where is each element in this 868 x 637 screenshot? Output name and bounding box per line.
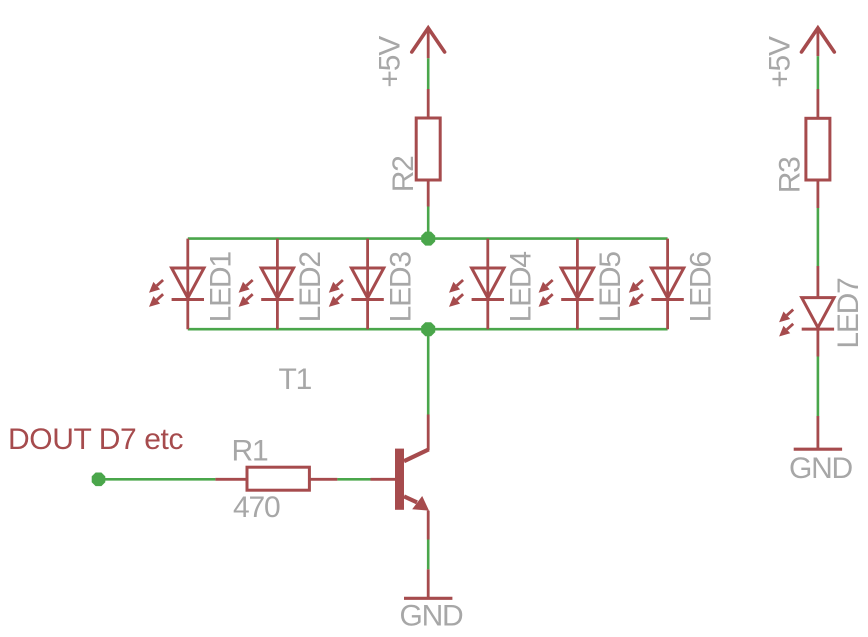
- wire top rail of LED bank (green): [188, 237, 668, 240]
- svg-text:R3: R3: [774, 157, 807, 193]
- svg-text:R1: R1: [232, 434, 268, 467]
- LED LED2 triangle: [261, 268, 293, 298]
- LED LED6 cathode bar: [651, 298, 683, 301]
- LED LED4 emission arrows: [449, 280, 463, 307]
- transistor T1 base pin: [371, 478, 396, 481]
- resistor R3 bottom pin: [817, 180, 820, 208]
- LED LED6 emission arrows: [629, 280, 643, 307]
- LED LED3 cathode bar: [351, 298, 383, 301]
- transistor T1 emitter diagonal with arrow: [404, 496, 429, 511]
- LED LED5 pin wire: [576, 239, 579, 330]
- wire bottom rail of LED bank (green): [188, 328, 668, 331]
- svg-text:+5V: +5V: [373, 36, 406, 88]
- svg-text:LED1: LED1: [205, 252, 238, 323]
- LED LED3 emission arrows: [329, 280, 343, 307]
- power +5V supply symbol (right): [802, 28, 835, 52]
- wire net +5V to R3 (green): [817, 56, 820, 89]
- diode LED7 triangle: [802, 298, 834, 328]
- diode LED7 anode pin: [817, 266, 820, 298]
- transistor T1 emitter pin: [427, 511, 430, 540]
- svg-text:DOUT D7 etc: DOUT D7 etc: [8, 423, 183, 456]
- LED LED2 emission arrows: [239, 280, 253, 307]
- LED LED4 pin wire: [486, 239, 489, 330]
- svg-text:470: 470: [233, 491, 280, 524]
- svg-text:T1: T1: [279, 363, 312, 396]
- wire +5V pin (center, red segment): [427, 28, 430, 58]
- svg-text:LED5: LED5: [594, 252, 627, 323]
- LED LED2 cathode bar: [261, 298, 293, 301]
- svg-text:+5V: +5V: [763, 36, 796, 88]
- transistor T1 base bar: [395, 449, 404, 510]
- LED LED2 pin wire: [276, 239, 279, 330]
- svg-text:LED3: LED3: [384, 252, 417, 323]
- wire bottom rail to T1 collector (green): [427, 329, 430, 414]
- diode LED7 cathode pin: [817, 329, 820, 356]
- ground GND pin (center): [427, 569, 430, 598]
- diode LED7 cathode bar: [802, 328, 834, 331]
- svg-text:LED6: LED6: [684, 252, 717, 323]
- resistor R1 right pin: [309, 478, 337, 481]
- resistor R1: [247, 467, 309, 490]
- LED LED5 emission arrows: [539, 280, 553, 307]
- ground symbol GND (center): [404, 597, 452, 600]
- LED LED1 emission arrows: [149, 280, 163, 307]
- LED LED4 cathode bar: [472, 298, 504, 301]
- LED LED1 triangle: [172, 268, 204, 298]
- resistor R2 top pin: [427, 89, 430, 118]
- wire R3 to LED7 (green): [817, 208, 820, 266]
- LED LED5 triangle: [561, 268, 593, 298]
- LED LED6 triangle: [651, 268, 683, 298]
- svg-text:LED2: LED2: [294, 252, 327, 323]
- diode LED7 emission arrows: [779, 310, 793, 337]
- node DOUT input (green dot): [92, 473, 106, 487]
- wire T1 emitter to GND (green): [427, 540, 430, 570]
- transistor T1 collector pin: [427, 415, 430, 451]
- wire DOUT to R1 (green): [99, 478, 216, 481]
- svg-text:LED7: LED7: [832, 278, 865, 349]
- LED LED4 triangle: [472, 268, 504, 298]
- power +5V supply symbol (center): [412, 28, 445, 52]
- resistor R3 top pin: [817, 89, 820, 118]
- ground symbol GND (right): [794, 448, 842, 451]
- ground GND pin (right): [817, 416, 820, 449]
- wire R1 to T1 base (green): [337, 478, 370, 481]
- wire LED7 to GND (green): [817, 357, 820, 417]
- junction node on top rail: [421, 232, 435, 246]
- svg-text:R2: R2: [387, 156, 420, 192]
- resistor R1 left pin: [215, 478, 247, 481]
- wire R2 to LED rail (green): [427, 207, 430, 239]
- svg-text:LED4: LED4: [505, 252, 538, 323]
- resistor R2: [416, 118, 440, 180]
- svg-text:GND: GND: [399, 600, 463, 633]
- LED LED3 pin wire: [366, 239, 369, 330]
- wire +5V pin (right, red segment): [817, 28, 820, 56]
- LED LED5 cathode bar: [561, 298, 593, 301]
- LED LED3 triangle: [351, 268, 383, 298]
- svg-text:GND: GND: [789, 452, 853, 485]
- LED LED6 pin wire: [666, 239, 669, 330]
- wire net from +5V to R2 (green): [427, 58, 430, 89]
- transistor T1 collector diagonal: [404, 449, 429, 461]
- junction node on bottom rail: [421, 322, 435, 336]
- LED LED1 pin wire: [186, 239, 189, 330]
- LED LED1 cathode bar: [172, 298, 204, 301]
- resistor R2 bottom pin: [427, 180, 430, 207]
- resistor R3: [806, 118, 830, 180]
